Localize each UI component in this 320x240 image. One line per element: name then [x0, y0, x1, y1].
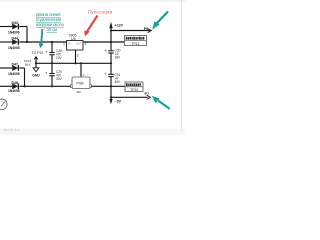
wire regulator output: [83, 41, 125, 43]
wire bottom bus: [0, 85, 12, 87]
page right edge line: [181, 0, 183, 135]
green arrow to P6: [152, 12, 168, 30]
diode D47: [8, 63, 20, 76]
svg-text:AB-LW 2-U ·: AB-LW 2-U ·: [3, 128, 21, 132]
node P7 arrow: [145, 92, 151, 99]
svg-text:D44: D44: [12, 37, 18, 41]
node +12V power arrow: [109, 22, 123, 29]
svg-text:3: 3: [85, 42, 87, 46]
wire P7 output: [111, 96, 148, 98]
svg-text:P6: P6: [144, 27, 149, 31]
wire third diode row: [0, 67, 12, 69]
wire joining top diode pair: [26, 27, 28, 43]
diode D42: [8, 21, 20, 34]
svg-text:ТР20: ТР20: [130, 88, 138, 92]
svg-text:1N4006: 1N4006: [8, 72, 20, 76]
diode D48: [8, 81, 20, 93]
svg-text:16V: 16V: [115, 56, 122, 60]
wire TO P21 stub: [35, 57, 37, 68]
node P6 arrow: [144, 27, 152, 33]
svg-text:GND: GND: [32, 73, 40, 77]
svg-text:D42: D42: [12, 21, 18, 25]
svg-text:IN: IN: [68, 42, 71, 45]
svg-text:+12V: +12V: [115, 24, 124, 28]
svg-text:1N4006: 1N4006: [8, 46, 20, 50]
node junction dots: [23, 29, 112, 98]
svg-text:TO P21: TO P21: [32, 51, 44, 55]
ground: [32, 68, 40, 78]
wire +12V vertical rail: [110, 28, 112, 50]
wire regulator ground pin: [75, 50, 77, 63]
svg-text:BLK: BLK: [25, 63, 31, 67]
svg-text:1N4006: 1N4006: [8, 89, 20, 93]
green arrow to P7: [152, 96, 170, 109]
op-amp U6 regulator box 7805: [63, 33, 87, 57]
connector box P7 label: [125, 82, 143, 92]
svg-text:Пульсации: Пульсации: [88, 10, 113, 15]
page bottom band: [0, 130, 185, 135]
svg-text:30V: 30V: [115, 80, 122, 84]
svg-text:D48: D48: [12, 81, 18, 85]
svg-text:OUT: OUT: [76, 42, 82, 45]
wire joining bottom diode pair: [24, 68, 26, 86]
svg-text:ТР12: ТР12: [132, 42, 140, 46]
svg-text:P7: P7: [145, 92, 150, 96]
svg-text:D47: D47: [12, 63, 18, 67]
wire left cap chain: [51, 42, 53, 52]
capacitor C28: [45, 49, 63, 60]
red arrow: [84, 16, 97, 37]
svg-text:2: 2: [77, 54, 79, 58]
svg-text:30V: 30V: [56, 77, 63, 81]
capacitor C31: [104, 72, 121, 85]
svg-text:10V: 10V: [56, 56, 63, 60]
svg-text:30 см: 30 см: [47, 27, 58, 32]
wire middle ground bus: [36, 62, 111, 64]
transistor PWB middle box: [71, 73, 92, 94]
svg-text:1N4006: 1N4006: [8, 30, 20, 34]
node circled ref bottom-left: [0, 99, 7, 110]
page top edge line: [0, 0, 185, 2]
node TO P21 connector: [24, 51, 44, 67]
svg-text:1: 1: [63, 42, 65, 46]
capacitor C30: [104, 48, 121, 60]
wire AC input second row / top bus: [0, 41, 12, 43]
wire P6 output: [111, 30, 151, 32]
wire AC input top row: [0, 26, 12, 28]
svg-text:U6: U6: [71, 37, 76, 41]
connector box P6 label: [125, 36, 147, 46]
diode D44: [8, 37, 20, 50]
svg-text:2M: 2M: [77, 90, 82, 94]
green note text: [36, 12, 65, 32]
capacitor C29: [45, 70, 63, 81]
svg-text:PWB: PWB: [76, 82, 83, 86]
svg-text:- 0V: - 0V: [115, 100, 122, 104]
wire middle box top pin: [80, 63, 82, 77]
node -0V power arrow: [109, 99, 121, 104]
green arrow to P21: [39, 29, 44, 49]
